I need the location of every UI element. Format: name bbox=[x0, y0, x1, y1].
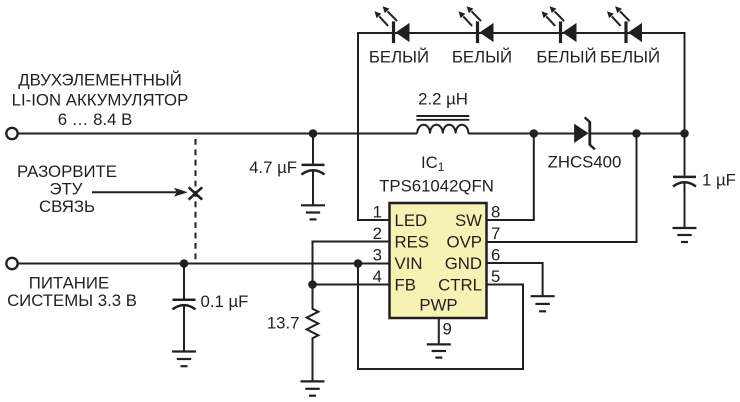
wire L1 to D1 bbox=[468, 133, 574, 135]
svg-text:6: 6 bbox=[491, 245, 500, 264]
terminal J2 system input bbox=[6, 258, 17, 269]
svg-text:1: 1 bbox=[373, 202, 382, 221]
svg-text:GND: GND bbox=[445, 254, 482, 273]
svg-text:5: 5 bbox=[491, 267, 500, 286]
svg-text:RES: RES bbox=[395, 232, 430, 251]
svg-text:ДВУХЭЛЕМЕНТНЫЙ: ДВУХЭЛЕМЕНТНЫЙ bbox=[18, 71, 182, 90]
wire GND pin6 bbox=[487, 263, 543, 296]
svg-text:8: 8 bbox=[491, 202, 500, 221]
resistor R1 bbox=[307, 285, 319, 382]
svg-text:2: 2 bbox=[373, 224, 382, 243]
wire D1 to output node bbox=[591, 133, 685, 135]
svg-text:LI-ION АККУМУЛЯТОР: LI-ION АККУМУЛЯТОР bbox=[12, 90, 189, 109]
wire PWP pin9 bbox=[438, 318, 440, 344]
svg-text:CTRL: CTRL bbox=[438, 275, 482, 294]
wire FB pin4 bbox=[313, 284, 390, 286]
capacitor C2 1uF bbox=[673, 134, 696, 229]
node SW tap bbox=[530, 129, 539, 138]
svg-text:LED: LED bbox=[395, 211, 428, 230]
svg-text:TPS61042QFN: TPS61042QFN bbox=[379, 177, 494, 196]
svg-text:6 … 8.4 В: 6 … 8.4 В bbox=[58, 110, 133, 129]
inductor L1 winding bbox=[417, 125, 468, 134]
svg-text:ЭТУ: ЭТУ bbox=[50, 180, 83, 199]
dashed link wire bbox=[195, 139, 197, 260]
svg-text:БЕЛЫЙ: БЕЛЫЙ bbox=[536, 47, 596, 66]
svg-text:VIN: VIN bbox=[395, 254, 423, 273]
svg-text:БЕЛЫЙ: БЕЛЫЙ bbox=[369, 47, 429, 66]
node C3 tap bbox=[180, 259, 189, 268]
LED D4 white bbox=[542, 6, 577, 43]
wire SW pin8 bbox=[487, 134, 534, 221]
arrow to X bbox=[92, 188, 188, 197]
IC U1 TPS61042QFN body bbox=[390, 203, 487, 318]
break X mark bbox=[189, 187, 203, 199]
svg-text:13.7: 13.7 bbox=[267, 313, 300, 332]
svg-text:3: 3 bbox=[373, 245, 382, 264]
LED D2 white bbox=[375, 6, 410, 43]
svg-text:4.7 µF: 4.7 µF bbox=[249, 158, 297, 177]
node OVP tap bbox=[632, 129, 641, 138]
ground PWP bbox=[427, 344, 451, 357]
wire CTRL pin5 to VIN bbox=[358, 264, 523, 370]
svg-text:0.1 µF: 0.1 µF bbox=[201, 292, 249, 311]
ground C1 bbox=[301, 205, 325, 219]
svg-text:РАЗОРВИТЕ: РАЗОРВИТЕ bbox=[17, 162, 117, 181]
terminal J1 battery input bbox=[6, 128, 17, 139]
svg-text:БЕЛЫЙ: БЕЛЫЙ bbox=[600, 47, 660, 66]
ground C2 bbox=[673, 228, 697, 242]
wire battery bus bbox=[18, 133, 417, 135]
svg-text:7: 7 bbox=[491, 224, 500, 243]
svg-text:СВЯЗЬ: СВЯЗЬ bbox=[39, 197, 95, 216]
ground R1 bbox=[301, 381, 325, 395]
wire LED string loop and pin1 bbox=[358, 33, 685, 220]
wire RES pin2 bbox=[313, 242, 390, 285]
wire OVP pin7 bbox=[487, 134, 637, 243]
svg-text:ZHCS400: ZHCS400 bbox=[548, 153, 622, 172]
LED D5 white bbox=[607, 6, 642, 43]
inductor L1 core bbox=[416, 116, 469, 120]
node output bbox=[680, 129, 689, 138]
svg-text:4: 4 bbox=[373, 267, 382, 286]
svg-text:FB: FB bbox=[395, 275, 416, 294]
capacitor C3 0.1uF bbox=[173, 264, 196, 352]
svg-text:SW: SW bbox=[455, 211, 482, 230]
svg-text:PWP: PWP bbox=[419, 296, 457, 315]
svg-text:БЕЛЫЙ: БЕЛЫЙ bbox=[452, 47, 512, 66]
svg-text:2.2 µH: 2.2 µH bbox=[418, 90, 468, 109]
svg-text:ПИТАНИЕ: ПИТАНИЕ bbox=[29, 274, 109, 293]
node FB/RES/R1 bbox=[308, 280, 317, 289]
node battery/C1 bbox=[309, 129, 318, 138]
capacitor C1 4.7uF bbox=[302, 134, 325, 206]
diode D1 ZHCS400 bbox=[574, 117, 595, 149]
svg-text:OVP: OVP bbox=[447, 232, 482, 251]
svg-text:1 µF: 1 µF bbox=[702, 170, 736, 189]
LED D3 white bbox=[459, 6, 494, 43]
ground C3 bbox=[172, 352, 196, 367]
svg-text:СИСТЕМЫ 3.3 В: СИСТЕМЫ 3.3 В bbox=[7, 291, 137, 310]
ground GND pin bbox=[531, 296, 555, 311]
node VIN/CTRL tap bbox=[354, 259, 363, 268]
wire VIN bus bbox=[18, 263, 389, 265]
svg-text:9: 9 bbox=[443, 320, 452, 339]
